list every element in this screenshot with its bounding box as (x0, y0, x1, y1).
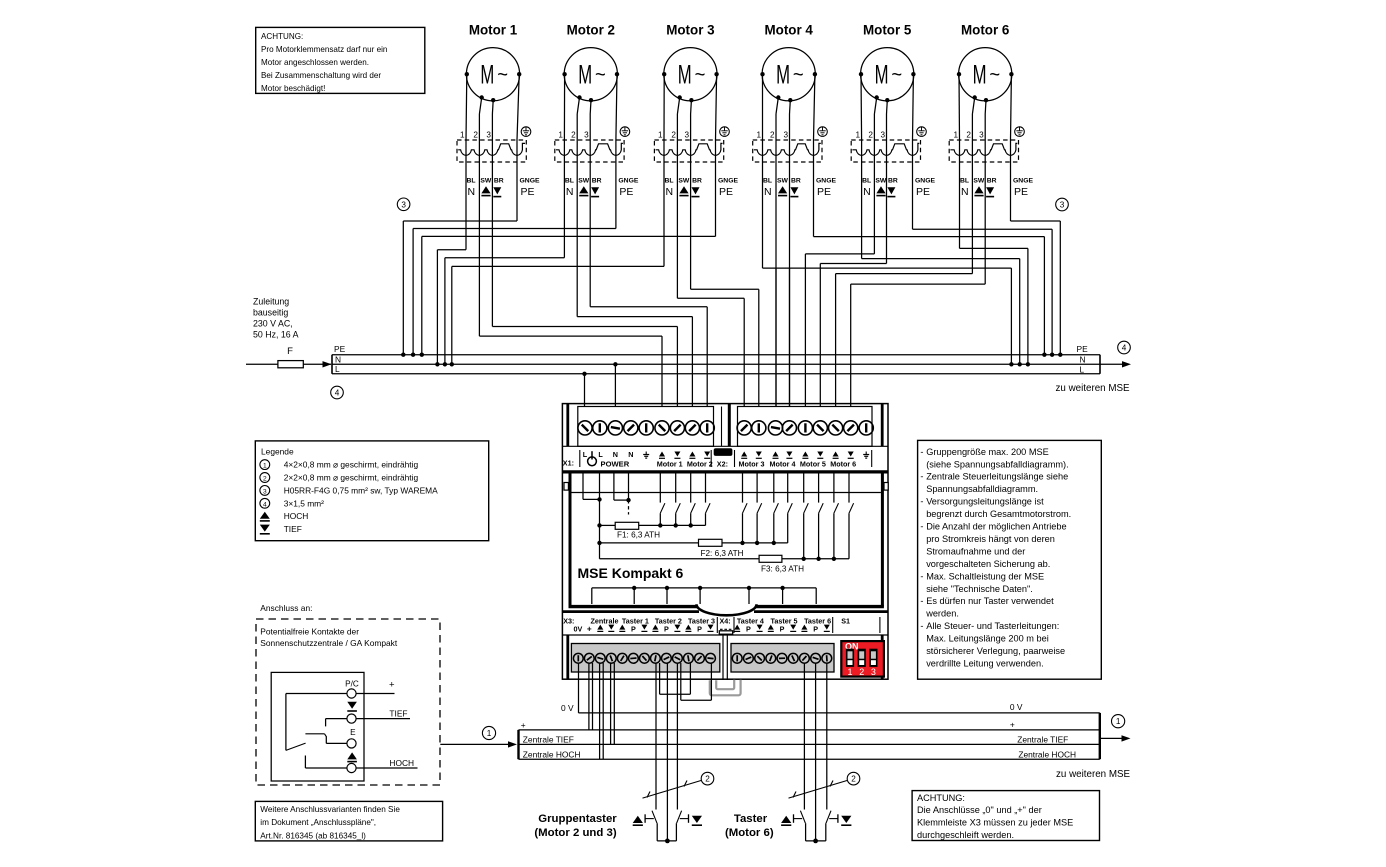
Zentrale HOCH bus line (519, 758, 1100, 760)
wire M1 UP (SW) from motor (479, 98, 481, 115)
motor M6 clamp scallops (950, 143, 1017, 155)
wire M2 UP to unit X1 (577, 316, 692, 318)
svg-text:~: ~ (891, 64, 902, 86)
svg-text:(Motor 2 und 3): (Motor 2 und 3) (534, 827, 616, 839)
bus continuation arrow right (1100, 363, 1123, 365)
Taster 6 terminal label (801, 616, 831, 633)
svg-text:-: - (920, 522, 923, 532)
svg-text:Legende: Legende (261, 447, 294, 457)
line under top terminal strip (562, 445, 888, 447)
svg-text:Motor 2: Motor 2 (567, 23, 615, 38)
svg-text:PE: PE (521, 186, 535, 198)
wire M2 DOWN to unit X1 (590, 306, 707, 308)
svg-text:ACHTUNG:: ACHTUNG: (261, 32, 303, 41)
wire M3 UP (SW) from motor (677, 98, 679, 115)
svg-text:Motor 6: Motor 6 (830, 460, 856, 469)
wire M5 N jog to bus (862, 258, 1020, 260)
X2 PE mini earth symbol (863, 450, 872, 467)
svg-text:X2:: X2: (717, 460, 728, 469)
wire M3 PE (GNGE) from motor (716, 74, 717, 140)
svg-text:BR: BR (692, 177, 702, 184)
bus left bracket (331, 355, 333, 374)
svg-text:Zentrale HOCH: Zentrale HOCH (1018, 749, 1076, 759)
svg-text:(Motor 6): (Motor 6) (725, 827, 774, 839)
svg-text:BL: BL (467, 177, 476, 184)
svg-text:Die Anzahl der möglichen Antri: Die Anzahl der möglichen Antriebe (926, 522, 1066, 532)
bus PE line (332, 354, 1100, 356)
Motor 2 terminal label (687, 452, 713, 469)
svg-text:2×2×0,8 mm ⌀ geschirmt, eindrä: 2×2×0,8 mm ⌀ geschirmt, eindrähtig (284, 473, 419, 483)
svg-text:Klemmleiste X3 müssen zu jeder: Klemmleiste X3 müssen zu jeder MSE (917, 818, 1073, 828)
motor M4 earth symbol (818, 127, 828, 137)
E contact stub (326, 742, 347, 744)
svg-text:3: 3 (401, 200, 406, 209)
wire M6 DOWN (BR) from motor (984, 100, 987, 114)
pushbutton Taster6 UP contact (794, 811, 806, 841)
svg-text:+: + (389, 680, 395, 691)
svg-text:1: 1 (658, 131, 663, 140)
bus N line (332, 363, 1100, 365)
wire bus N to unit terminal (614, 364, 616, 406)
internal dashed stub (power supply) (628, 500, 630, 514)
Taster Motor 6 caption (725, 813, 774, 839)
wire M2 PE (GNGE) from motor (616, 74, 617, 140)
svg-text:HOCH: HOCH (389, 758, 414, 768)
svg-text:P: P (631, 624, 636, 633)
svg-text:Motor 6: Motor 6 (961, 23, 1009, 38)
internal wire power (599, 474, 601, 500)
motor M6 terminal numbers 1 2 3 (953, 131, 984, 140)
svg-text:Motor 3: Motor 3 (666, 23, 714, 38)
X4 terminal block (gray) (731, 644, 834, 673)
svg-text:-: - (920, 621, 923, 631)
X2 label (710, 450, 712, 467)
wire M1 N jog to bus (437, 249, 466, 251)
junction dots PE bus (401, 353, 405, 357)
motor M2 clamp scallops (556, 143, 623, 155)
0V bus line (579, 712, 1100, 714)
svg-text:3: 3 (979, 131, 984, 140)
wire M6 PE (GNGE) from motor (1010, 74, 1013, 140)
svg-text:SW: SW (973, 177, 985, 184)
svg-text:GNGE: GNGE (520, 177, 540, 184)
svg-text:E: E (350, 728, 356, 737)
svg-text:4: 4 (335, 389, 340, 398)
wire Taster2 P to button common (666, 663, 668, 841)
svg-text:1: 1 (263, 463, 267, 470)
thick line under label band (relay box top) (562, 470, 888, 473)
svg-text:2: 2 (966, 131, 971, 140)
X1 terminal labels L power L N N PE (583, 450, 649, 468)
svg-text:Gruppentaster: Gruppentaster (538, 813, 617, 825)
svg-text:Motor 1: Motor 1 (469, 23, 518, 38)
wire Taster6 UP to button (803, 663, 805, 810)
bottom bus right bracket (1099, 713, 1101, 759)
svg-text:3: 3 (584, 131, 589, 140)
wire M1 N (BL) from motor (465, 74, 468, 140)
switch moving contact (305, 733, 324, 735)
wire M2 PE jog to bus (413, 228, 616, 230)
MSE unit right thick bar (bottom strip) (881, 635, 884, 679)
wire M5 PE (GNGE) from motor (912, 74, 915, 140)
inner band rail (572, 492, 881, 494)
wire 0V from X3 (578, 663, 580, 713)
svg-text:+: + (587, 624, 592, 633)
svg-text:GNGE: GNGE (915, 177, 935, 184)
svg-text:MSE Kompakt 6: MSE Kompakt 6 (578, 565, 684, 581)
central unit contact box (271, 672, 364, 781)
motor M3 earth symbol (720, 127, 730, 137)
svg-text:Art.Nr. 816345 (ab 816345_l): Art.Nr. 816345 (ab 816345_l) (260, 831, 366, 840)
motor M1 clamp scallops (458, 143, 525, 155)
relay box right border (881, 472, 884, 607)
warning box top left (256, 27, 425, 93)
fuse F2 (600, 542, 699, 544)
bus L line (332, 373, 1100, 375)
motor M3 terminal numbers 1 2 3 (658, 131, 690, 140)
bus right bracket (1099, 355, 1101, 374)
svg-text:~: ~ (695, 64, 706, 86)
svg-text:Zentrale TIEF: Zentrale TIEF (1017, 735, 1068, 745)
arrowhead into bus (323, 361, 332, 367)
wire M3 N (BL) from motor (663, 74, 665, 140)
motor M6 circle (957, 48, 1014, 103)
motor M5 earth symbol (917, 127, 927, 137)
motor M1 terminal numbers 1 2 3 (460, 131, 491, 140)
right tab (884, 483, 888, 491)
svg-text:2: 2 (671, 131, 676, 140)
motor M3 clamp box (dashed) (654, 140, 723, 162)
svg-text:0V: 0V (574, 624, 583, 633)
svg-text:POWER: POWER (601, 460, 630, 469)
svg-text:siehe "Technische Daten".: siehe "Technische Daten". (926, 584, 1033, 594)
relay contact K2.4 (788, 474, 793, 543)
cable marker 4 right (1118, 341, 1131, 354)
svg-text:zu weiteren MSE: zu weiteren MSE (1056, 383, 1131, 394)
svg-text:4: 4 (263, 501, 267, 508)
svg-text:PE: PE (334, 344, 346, 354)
Gruppentaster caption (534, 813, 617, 839)
motor M3 circle (662, 48, 719, 103)
svg-text:2: 2 (851, 775, 856, 784)
svg-text:4: 4 (1122, 344, 1127, 353)
svg-text:H05RR-F4G 0,75 mm² sw, Typ WAR: H05RR-F4G 0,75 mm² sw, Typ WAREMA (284, 485, 438, 495)
inner box bottom notch (697, 604, 757, 615)
svg-text:SW: SW (578, 177, 590, 184)
svg-text:3: 3 (685, 131, 690, 140)
HOCH output line (356, 767, 417, 769)
motor M4 clamp box (dashed) (753, 140, 822, 162)
svg-text:Motor 1: Motor 1 (657, 460, 683, 469)
pushbutton Gruppentaster DOWN contact (676, 811, 688, 841)
fuse F1 (600, 524, 616, 526)
svg-text:M: M (875, 60, 889, 90)
svg-text:P/C: P/C (345, 679, 359, 688)
bottom terminal strip top line (562, 634, 888, 636)
wire M1 PE (GNGE) from motor (517, 74, 519, 140)
svg-text:Zentrale: Zentrale (591, 616, 619, 625)
svg-text:P: P (697, 624, 702, 633)
svg-text:BR: BR (791, 177, 801, 184)
pushbutton Taster6 DOWN contact (826, 811, 838, 841)
svg-text:~: ~ (595, 64, 606, 86)
relay contact K3.2 (816, 474, 823, 562)
Taster 4 terminal label (734, 616, 764, 633)
TIEF contact stub (326, 718, 347, 720)
MSE unit left thick bar (bottom strip) (566, 635, 569, 679)
svg-text:1: 1 (856, 131, 861, 140)
svg-text:1: 1 (487, 729, 492, 738)
svg-text:BL: BL (763, 177, 772, 184)
wire M5 N (BL) from motor (860, 74, 863, 140)
Zentrale label (591, 616, 619, 625)
svg-text:230 V AC,: 230 V AC, (253, 319, 293, 329)
wire Taster2 DOWN jumper leg (680, 663, 682, 700)
svg-text:+: + (1010, 720, 1015, 730)
motor M5 wire colour labels (862, 177, 935, 198)
wire M4 UP to unit X2 (775, 268, 777, 406)
svg-text:X1:: X1: (563, 459, 574, 468)
svg-text:3×1,5 mm²: 3×1,5 mm² (284, 498, 324, 508)
relay box bottom border (569, 605, 698, 608)
bottom bus left bracket (517, 730, 519, 759)
Taster 5 terminal label (768, 616, 798, 633)
svg-text:Max. Leitungslänge 200 m bei: Max. Leitungslänge 200 m bei (926, 634, 1049, 644)
wire M4 N (BL) from motor (762, 74, 764, 140)
svg-text:50 Hz, 16 A: 50 Hz, 16 A (253, 330, 299, 340)
svg-text:Stromaufnahme und der: Stromaufnahme und der (926, 546, 1025, 556)
motor M5 clamp scallops (852, 143, 919, 155)
wire M4 PE jog to bus (814, 236, 1045, 238)
svg-text:vorgeschalteten Sicherung ab.: vorgeschalteten Sicherung ab. (926, 559, 1050, 569)
cable marker 2 diagonal (Gruppentaster) (643, 781, 702, 799)
wire M3 PE jog to bus (422, 235, 716, 237)
svg-text:X4:: X4: (720, 616, 731, 625)
gray X3-X4 link (inner U) (716, 680, 734, 689)
svg-text:Zentrale HOCH: Zentrale HOCH (523, 749, 581, 759)
internal wire N1 (613, 474, 615, 501)
svg-text:0 V: 0 V (1010, 702, 1023, 712)
svg-text:TIEF: TIEF (389, 709, 407, 719)
svg-text:HOCH: HOCH (284, 511, 309, 521)
svg-text:Motor beschädigt!: Motor beschädigt! (261, 84, 325, 93)
cable marker 2 diagonal (Taster6) (789, 781, 848, 799)
wire M2 UP (SW) from motor (577, 98, 579, 115)
jumper Taster2-Taster3 DOWN (681, 699, 712, 701)
Zentrale terminal symbols (587, 624, 614, 633)
svg-text:BL: BL (862, 177, 871, 184)
warning box bottom right (912, 791, 1099, 841)
wire M5 PE jog to bus (913, 228, 1053, 230)
X4 label (716, 617, 718, 633)
pushbutton Gruppentaster UP symbol (633, 816, 643, 825)
motor M2 terminal numbers 1 2 3 (558, 131, 589, 140)
X3 terminal block (gray) (571, 644, 719, 673)
svg-text:S1: S1 (841, 616, 850, 625)
svg-text:F: F (287, 346, 293, 357)
terminal block X1 (top left) (578, 407, 714, 447)
wire M3 DOWN (BR) from motor (690, 100, 693, 114)
motor M1 earth symbol (521, 127, 531, 137)
svg-text:Motor 5: Motor 5 (863, 23, 912, 38)
wire Taster2 DOWN to button (676, 663, 678, 810)
pushbutton Gruppentaster DOWN symbol (692, 816, 702, 825)
svg-text:3: 3 (263, 488, 267, 495)
svg-text:SW: SW (875, 177, 887, 184)
svg-text:SW: SW (678, 177, 690, 184)
svg-text:M: M (776, 60, 790, 90)
svg-text:3: 3 (783, 131, 788, 140)
info box right (918, 440, 1102, 679)
svg-text:N: N (613, 450, 618, 459)
motor M3 clamp scallops (656, 143, 723, 155)
svg-text:Bei Zusammenschaltung wird der: Bei Zusammenschaltung wird der (261, 71, 381, 80)
cable marker 3 right (1056, 198, 1069, 211)
svg-text:Anschluss an:: Anschluss an: (260, 603, 312, 613)
motor M4 circle (760, 48, 817, 103)
bottom bus labels right (1010, 702, 1076, 759)
motor M4 terminal numbers 1 2 3 (756, 131, 788, 140)
svg-text:ACHTUNG:: ACHTUNG: (917, 793, 965, 803)
svg-text:N: N (863, 186, 871, 198)
wire M3 UP to unit X2 (677, 297, 744, 299)
wire plus pair from X3 (588, 663, 590, 730)
wire M4 N jog to bus (763, 267, 1012, 269)
wire M4 PE (GNGE) from motor (814, 74, 815, 140)
svg-text:0 V: 0 V (561, 703, 574, 713)
svg-text:pro Stromkreis hängt von deren: pro Stromkreis hängt von deren (926, 534, 1055, 544)
svg-text:PE: PE (1014, 186, 1028, 198)
svg-text:GNGE: GNGE (618, 177, 638, 184)
internal wire L (582, 474, 584, 500)
svg-text:BL: BL (665, 177, 674, 184)
svg-text:L: L (335, 364, 340, 374)
motor M5 circle (859, 48, 916, 103)
svg-text:PE: PE (817, 186, 831, 198)
svg-text:(siehe Spannungsabfalldiagramm: (siehe Spannungsabfalldiagramm). (926, 459, 1068, 469)
fuse F (278, 361, 303, 368)
svg-text:Zuleitung: Zuleitung (253, 297, 289, 307)
pushbutton Gruppentaster common bus (657, 840, 676, 842)
gray X3-X4 link (outer U) (710, 680, 741, 696)
internal P rail (592, 586, 816, 604)
svg-text:Taster: Taster (734, 813, 768, 825)
wire M2 N jog to bus (445, 257, 565, 259)
svg-text:zu weiteren MSE: zu weiteren MSE (1056, 769, 1131, 780)
cable marker 3 left (397, 198, 410, 211)
wire Taster2 UP to button (655, 663, 657, 810)
wire M6 DOWN to unit X2 (851, 283, 986, 285)
svg-text:-: - (920, 596, 923, 606)
svg-text:N: N (628, 450, 633, 459)
svg-text:M: M (480, 60, 494, 90)
motor M2 circle (562, 48, 619, 103)
svg-text:Die Anschlüsse „0" und „+" der: Die Anschlüsse „0" und „+" der (917, 805, 1042, 815)
svg-text:Max. Schaltleistung der MSE: Max. Schaltleistung der MSE (926, 571, 1044, 581)
wire Zentrale TIEF pair from X3 (610, 663, 612, 744)
wire M5 UP (SW) from motor (874, 98, 876, 115)
wire M1 UP to unit X1 (479, 335, 662, 337)
svg-text:N: N (566, 186, 574, 198)
svg-text:1: 1 (756, 131, 761, 140)
X2 screw terminals (737, 421, 873, 435)
relay contact K3.1 (802, 474, 809, 562)
X2 black key bar (714, 448, 733, 456)
pushbutton Taster6 DOWN symbol (841, 816, 851, 825)
svg-text:Gruppengröße max. 200 MSE: Gruppengröße max. 200 MSE (926, 447, 1049, 457)
HOCH terminal (347, 763, 356, 772)
wire Taster6 P to button common (815, 663, 817, 841)
svg-text:1: 1 (460, 131, 465, 140)
wire M3 N jog to bus (452, 265, 664, 267)
svg-text:Sonnenschutzzentrale / GA Komp: Sonnenschutzzentrale / GA Kompakt (260, 638, 398, 648)
wire M1 DOWN to unit X1 (492, 326, 677, 328)
svg-text:Alle Steuer- und Tasterleitung: Alle Steuer- und Tasterleitungen: (926, 621, 1059, 631)
MSE unit left thick bar (top strip) (566, 404, 569, 447)
motor M4 wire colour labels (763, 177, 836, 198)
S1 label (832, 617, 834, 633)
motor M1 circle (465, 48, 522, 103)
svg-text:SW: SW (777, 177, 789, 184)
svg-text:BR: BR (494, 177, 504, 184)
svg-text:P: P (664, 624, 669, 633)
wire M1 PE jog to bus (403, 220, 517, 222)
divider between X1 and X2 blocks (721, 407, 723, 447)
plus bus line (519, 729, 1100, 731)
motor M6 clamp box (dashed) (949, 140, 1018, 162)
svg-text:werden.: werden. (925, 609, 959, 619)
svg-text:3: 3 (880, 131, 885, 140)
svg-text:M: M (578, 60, 592, 90)
Taster 2 terminal label (652, 616, 682, 633)
motor M2 clamp box (dashed) (555, 140, 624, 162)
svg-text:BR: BR (987, 177, 997, 184)
connection box title (260, 627, 398, 648)
X4 plug symbol (720, 628, 732, 630)
incoming control arrow left (440, 743, 508, 745)
terminal block X2 (top right) (738, 407, 873, 447)
X3 screw terminals (573, 653, 715, 663)
relay contact K3.4 (849, 474, 854, 559)
svg-text:Es dürfen nur Taster verwendet: Es dürfen nur Taster verwendet (926, 596, 1054, 606)
svg-text:im Dokument „Anschlusspläne",: im Dokument „Anschlusspläne", (260, 818, 376, 827)
cable marker 2 circle (Gruppentaster) (701, 772, 714, 785)
relay contact K1.2 (674, 474, 681, 528)
svg-text:Motor 2: Motor 2 (687, 460, 713, 469)
svg-text:GNGE: GNGE (718, 177, 738, 184)
motor M2 wire colour labels (565, 177, 639, 198)
cable marker 1 right (1112, 715, 1125, 728)
svg-text:Weitere Anschlussvarianten fin: Weitere Anschlussvarianten finden Sie (260, 805, 400, 814)
MSE unit outer box (562, 404, 888, 680)
svg-text:Spannungsabfalldiagramm.: Spannungsabfalldiagramm. (926, 484, 1038, 494)
wire M4 DOWN to unit X2 (789, 268, 791, 406)
wire M2 DOWN (BR) from motor (589, 100, 592, 114)
wire M1 DOWN (BR) from motor (491, 100, 494, 114)
left tab (564, 483, 568, 491)
wire M6 N jog to bus (960, 247, 1028, 249)
feed text Zuleitung (253, 297, 299, 340)
svg-text:4×2×0,8 mm ⌀ geschirmt, eindrä: 4×2×0,8 mm ⌀ geschirmt, eindrähtig (284, 460, 419, 470)
X1 screw terminals (578, 421, 714, 435)
switch common rail (286, 693, 347, 695)
legend box (255, 441, 488, 541)
svg-text:-: - (920, 447, 923, 457)
plus output line (356, 693, 394, 695)
Motor 1 terminal label (657, 452, 683, 469)
relay contact K2.3 (772, 474, 779, 546)
switch blade (286, 743, 306, 750)
